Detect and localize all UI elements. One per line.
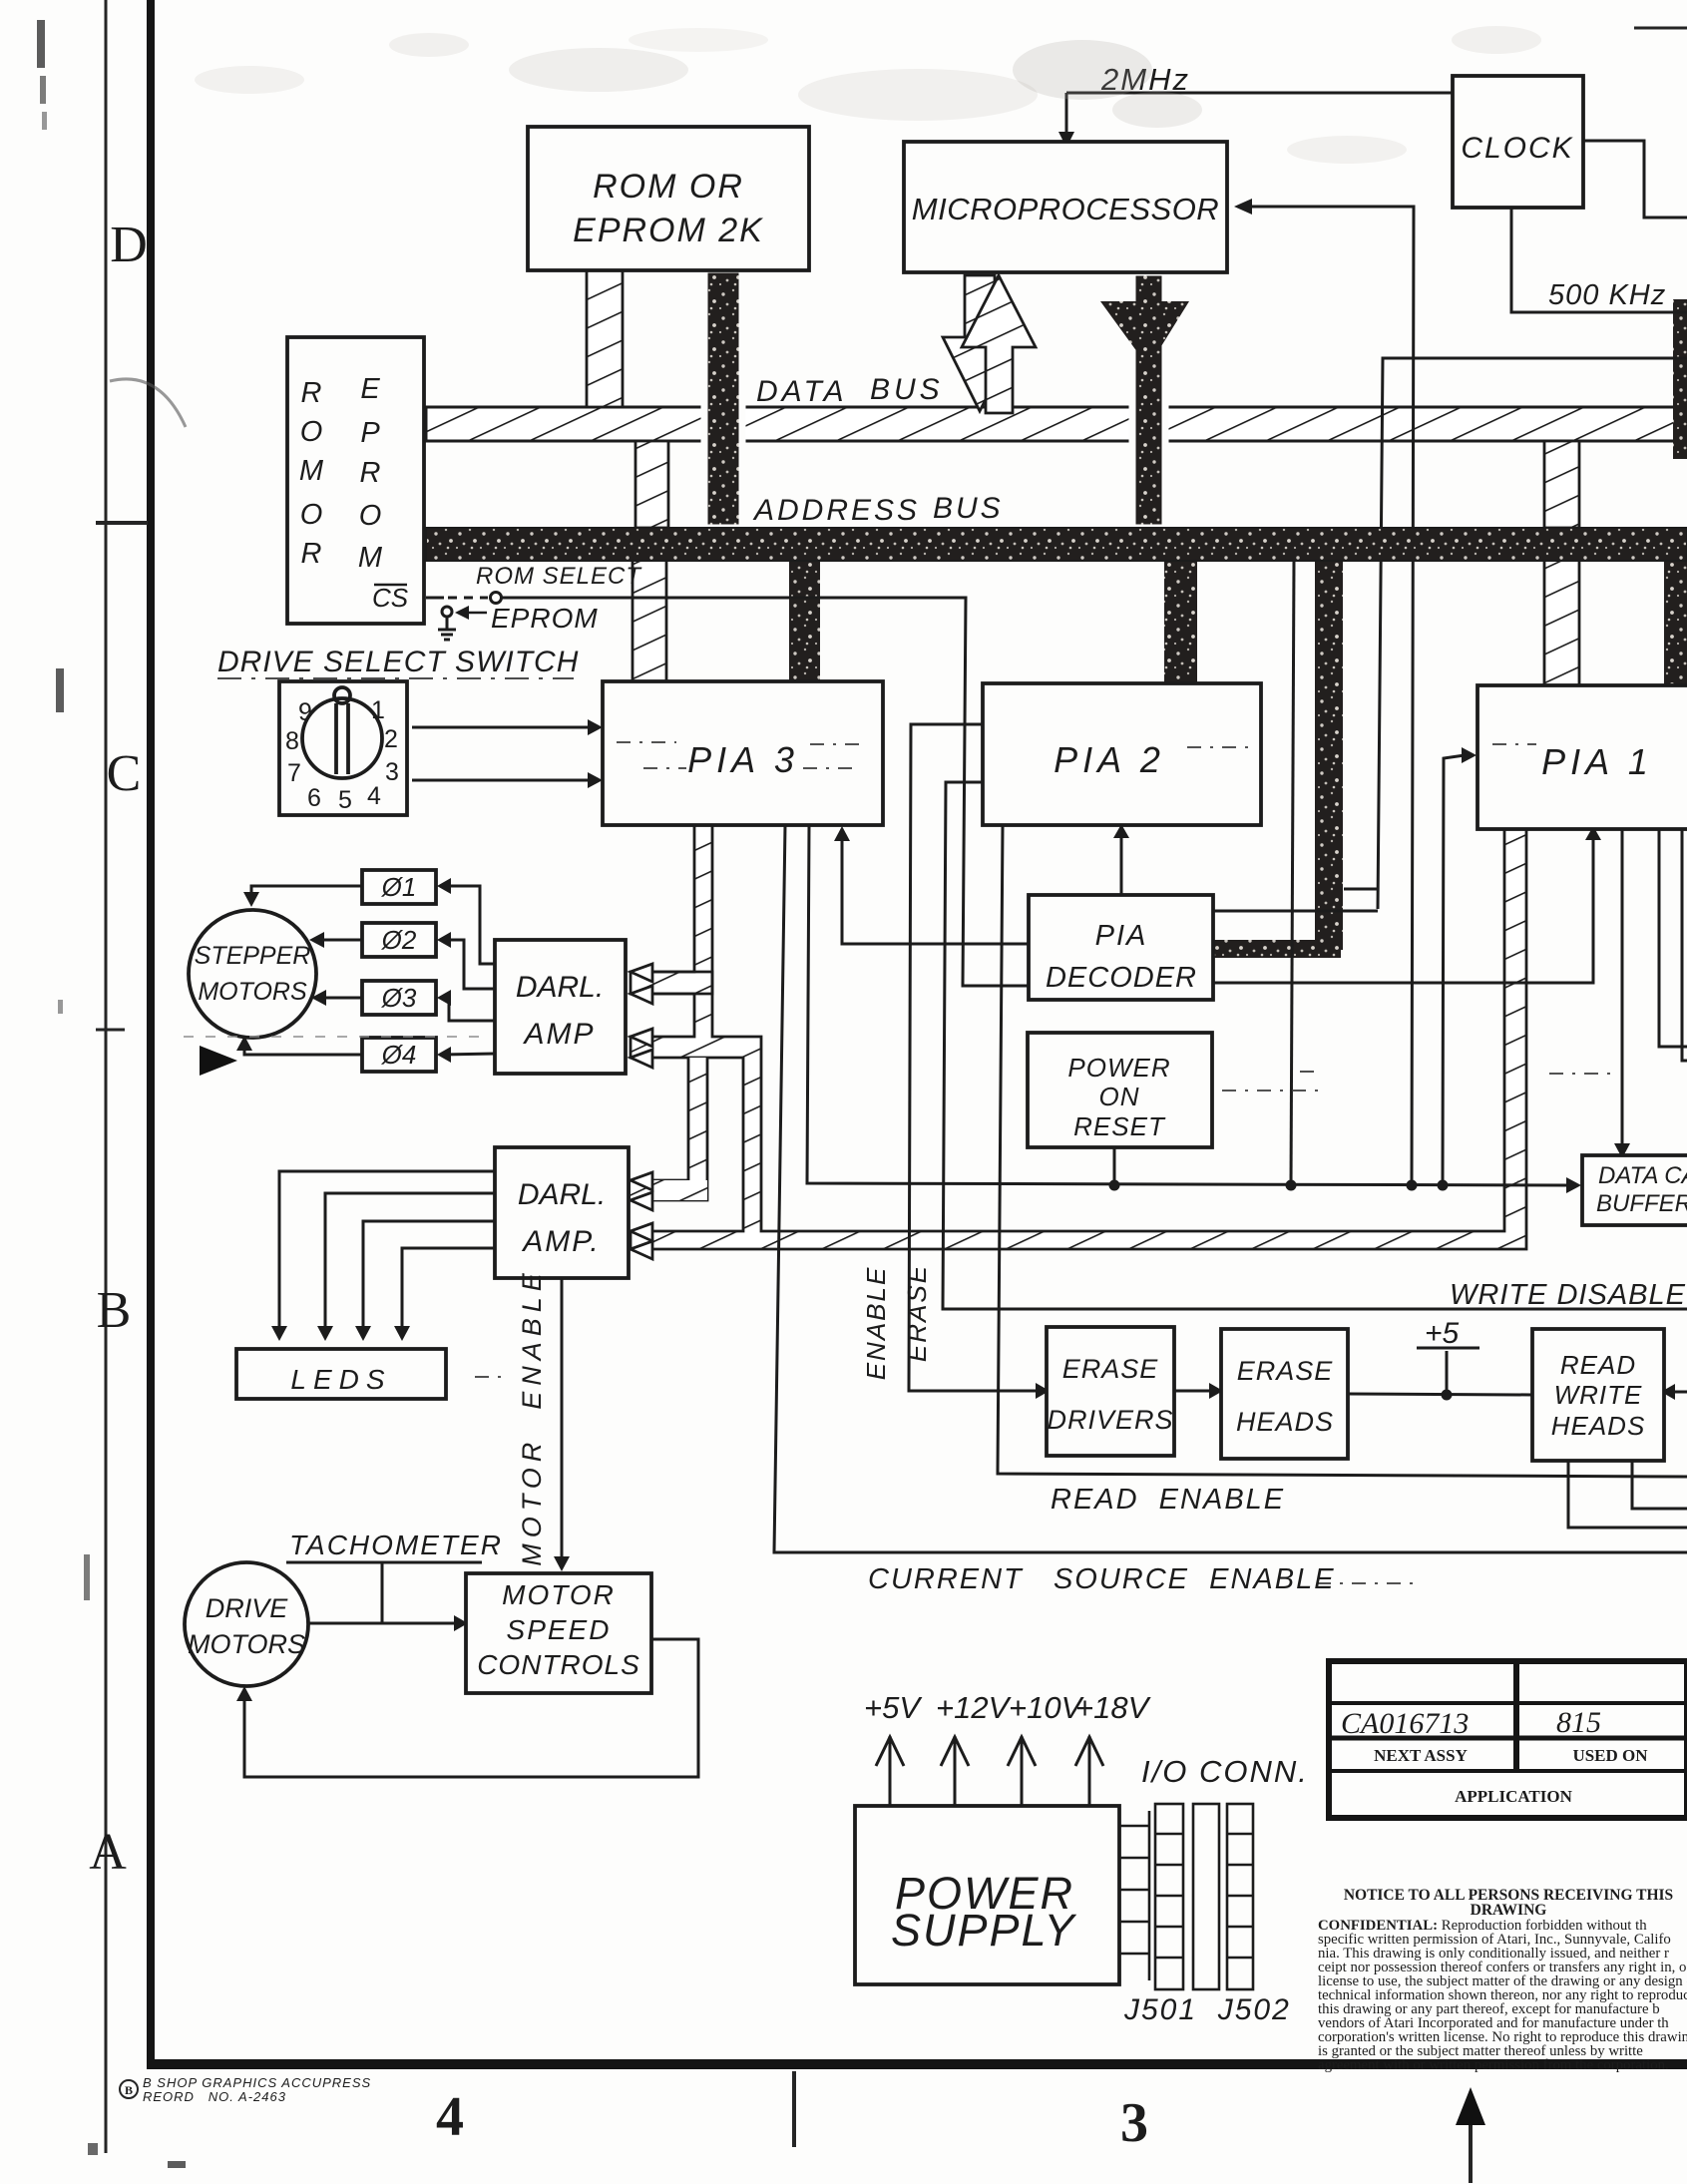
svg-text:MOTOR: MOTOR	[502, 1579, 616, 1610]
svg-text:CS: CS	[372, 583, 409, 613]
svg-text:2: 2	[384, 725, 398, 753]
svg-text:3: 3	[385, 758, 399, 786]
svg-text:HEADS: HEADS	[1236, 1407, 1334, 1437]
svg-text:5: 5	[338, 786, 352, 814]
svg-text:+18V: +18V	[1075, 1690, 1152, 1725]
svg-text:CONTROLS: CONTROLS	[477, 1649, 640, 1680]
svg-text:APPLICATION: APPLICATION	[1455, 1787, 1572, 1806]
svg-text:HEADS: HEADS	[1551, 1411, 1646, 1441]
svg-text:4: 4	[367, 782, 381, 810]
svg-text:READ: READ	[1560, 1350, 1636, 1380]
svg-text:CLOCK: CLOCK	[1461, 132, 1573, 165]
svg-text:DRIVE: DRIVE	[206, 1593, 289, 1623]
svg-text:REORD NO. A-2463: REORD NO. A-2463	[143, 2089, 286, 2104]
svg-text:8: 8	[285, 727, 299, 755]
svg-text:B: B	[125, 2083, 133, 2097]
svg-text:ERASE: ERASE	[1062, 1354, 1159, 1384]
svg-text:LEDS: LEDS	[290, 1364, 391, 1395]
svg-text:I/O CONN.: I/O CONN.	[1141, 1754, 1309, 1789]
svg-text:CA016713: CA016713	[1341, 1707, 1469, 1740]
svg-text:1: 1	[371, 696, 385, 724]
svg-text:AMP.: AMP.	[521, 1225, 600, 1258]
svg-text:DECODER: DECODER	[1046, 962, 1197, 994]
svg-text:STEPPER: STEPPER	[195, 942, 311, 970]
svg-text:PIA: PIA	[1095, 920, 1148, 952]
svg-text:ADDRESS: ADDRESS	[752, 494, 920, 527]
svg-text:PIA 1: PIA 1	[1541, 741, 1653, 782]
svg-text:E: E	[360, 373, 380, 405]
svg-text:NEXT ASSY: NEXT ASSY	[1374, 1746, 1468, 1765]
svg-text:POWER: POWER	[1067, 1053, 1170, 1083]
svg-text:CURRENT SOURCE ENABLE: CURRENT SOURCE ENABLE	[868, 1563, 1336, 1595]
svg-text:BUFFER: BUFFER	[1596, 1190, 1687, 1217]
svg-text:D: D	[110, 217, 148, 273]
svg-text:A: A	[89, 1824, 127, 1881]
svg-text:SPEED: SPEED	[507, 1614, 612, 1645]
svg-text:ROM OR: ROM OR	[593, 168, 744, 206]
svg-text:ROM SELECT: ROM SELECT	[476, 563, 642, 590]
svg-text:500 KHz: 500 KHz	[1548, 279, 1666, 311]
svg-text:DATA CA: DATA CA	[1598, 1162, 1687, 1189]
svg-text:ERASE: ERASE	[1237, 1356, 1334, 1386]
svg-text:BUS: BUS	[933, 492, 1004, 525]
svg-text:DRAWING: DRAWING	[1471, 1902, 1547, 1919]
svg-text:O: O	[300, 499, 323, 531]
svg-text:DARL.: DARL.	[516, 971, 604, 1004]
svg-text:Ø4: Ø4	[381, 1040, 417, 1070]
svg-text:B SHOP GRAPHICS ACCUPRESS: B SHOP GRAPHICS ACCUPRESS	[143, 2075, 371, 2090]
svg-text:P: P	[360, 417, 380, 449]
svg-text:MOTORS: MOTORS	[198, 978, 307, 1006]
svg-text:+12V: +12V	[936, 1690, 1013, 1725]
svg-text:WRITE: WRITE	[1554, 1380, 1643, 1410]
svg-text:3: 3	[1120, 2092, 1148, 2154]
svg-text:EPROM 2K: EPROM 2K	[573, 212, 764, 249]
svg-text:ENABLE: ENABLE	[861, 1266, 891, 1381]
svg-text:Ø2: Ø2	[381, 925, 417, 955]
svg-text:9: 9	[298, 698, 312, 726]
svg-text:DATA: DATA	[756, 375, 848, 408]
svg-text:MOTOR ENABLE: MOTOR ENABLE	[517, 1267, 547, 1566]
svg-text:7: 7	[287, 759, 301, 787]
svg-text:O: O	[359, 500, 382, 532]
svg-text:DRIVERS: DRIVERS	[1047, 1405, 1173, 1435]
svg-text:MOTORS: MOTORS	[188, 1629, 305, 1659]
svg-text:USED ON: USED ON	[1572, 1746, 1648, 1765]
svg-text:M: M	[358, 542, 383, 574]
svg-text:BUS: BUS	[870, 373, 944, 406]
svg-text:R: R	[301, 538, 322, 570]
svg-text:MICROPROCESSOR: MICROPROCESSOR	[912, 192, 1219, 226]
svg-text:815: 815	[1556, 1706, 1601, 1739]
svg-text:Ø1: Ø1	[381, 872, 417, 902]
svg-text:READ ENABLE: READ ENABLE	[1051, 1484, 1285, 1516]
svg-text:4: 4	[436, 2086, 464, 2148]
svg-text:PIA 3: PIA 3	[687, 739, 799, 780]
svg-text:agreement with or written perm: agreement with or written permission fro…	[1318, 2057, 1669, 2073]
svg-text:DARL.: DARL.	[518, 1178, 606, 1211]
svg-text:O: O	[300, 416, 323, 448]
svg-text:B: B	[97, 1282, 132, 1339]
svg-text:R: R	[360, 457, 381, 489]
svg-text:PIA 2: PIA 2	[1054, 739, 1165, 780]
svg-text:Ø3: Ø3	[381, 983, 417, 1013]
svg-text:+10V: +10V	[1009, 1690, 1085, 1725]
svg-text:J501 J502: J501 J502	[1123, 1993, 1291, 2026]
svg-text:C: C	[107, 745, 142, 802]
svg-text:ERASE: ERASE	[902, 1264, 932, 1362]
svg-text:TACHOMETER: TACHOMETER	[289, 1529, 503, 1560]
svg-text:M: M	[299, 455, 324, 487]
svg-text:AMP: AMP	[522, 1018, 595, 1051]
svg-text:DRIVE SELECT SWITCH: DRIVE SELECT SWITCH	[217, 646, 579, 678]
svg-text:WRITE DISABLE: WRITE DISABLE	[1450, 1279, 1686, 1311]
svg-text:R: R	[301, 377, 322, 409]
svg-text:+5: +5	[1425, 1317, 1460, 1350]
svg-text:+5V: +5V	[864, 1690, 923, 1725]
svg-text:6: 6	[307, 784, 321, 812]
svg-text:RESET: RESET	[1073, 1111, 1166, 1141]
svg-text:ON: ON	[1099, 1082, 1140, 1111]
svg-text:SUPPLY: SUPPLY	[891, 1905, 1076, 1956]
svg-text:EPROM: EPROM	[491, 603, 599, 634]
